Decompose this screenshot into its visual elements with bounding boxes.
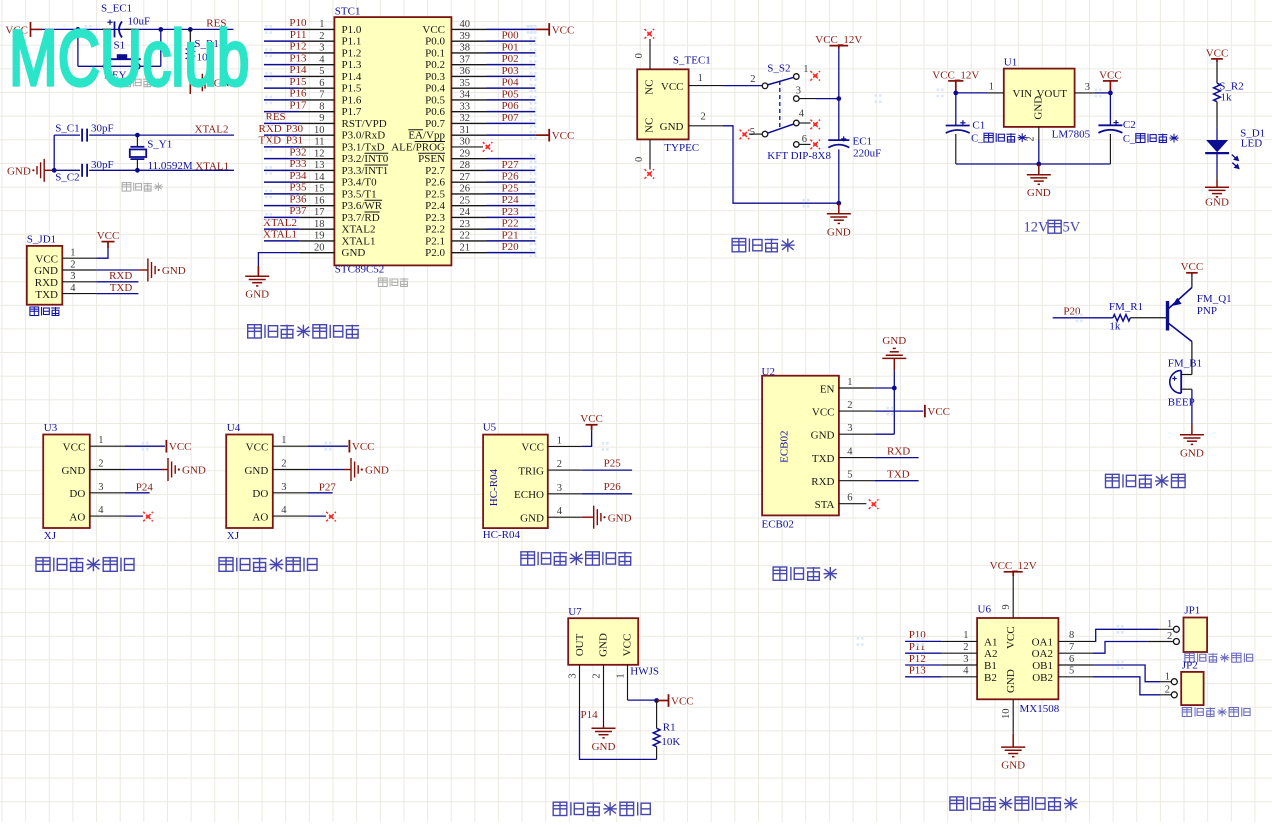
- pin 3: [90, 492, 125, 494]
- pin6 STA cross: [869, 499, 879, 509]
- svg-text:VCC: VCC: [1005, 626, 1017, 649]
- svg-text:P0.3: P0.3: [425, 71, 445, 83]
- svg-text:P2.2: P2.2: [425, 224, 445, 236]
- title bluetooth: [773, 567, 837, 580]
- svg-text:FM_B1: FM_B1: [1168, 358, 1202, 370]
- svg-text:TXD: TXD: [35, 289, 58, 301]
- svg-text:VCC: VCC: [352, 441, 375, 453]
- svg-text:GND: GND: [365, 465, 389, 477]
- svg-text:2: 2: [70, 259, 75, 270]
- svg-text:P2.3: P2.3: [425, 212, 445, 224]
- svg-text:TXD: TXD: [812, 453, 835, 465]
- svg-text:BEEP: BEEP: [1168, 396, 1195, 408]
- svg-text:17: 17: [314, 207, 325, 218]
- svg-text:HWJS: HWJS: [630, 666, 659, 678]
- power port VCC (U1 out): [1103, 81, 1118, 93]
- svg-text:GND: GND: [245, 289, 269, 301]
- wire pin3 DO: [125, 492, 150, 494]
- svg-text:2: 2: [557, 459, 562, 470]
- svg-text:28: 28: [460, 160, 471, 171]
- wire 12V rail: [838, 49, 840, 141]
- pin 30 stub with no-ERC cross: [451, 146, 483, 148]
- svg-text:P23: P23: [502, 206, 520, 218]
- pin 3: [1075, 92, 1095, 94]
- svg-text:P10: P10: [289, 17, 307, 29]
- pin 4: [273, 515, 308, 517]
- svg-text:S_Y1: S_Y1: [147, 138, 172, 150]
- svg-text:VCC: VCC: [97, 230, 120, 242]
- IC pins left: [300, 29, 335, 252]
- svg-text:VCC: VCC: [661, 81, 684, 93]
- svg-text:29: 29: [460, 148, 471, 159]
- svg-text:4: 4: [847, 447, 853, 458]
- svg-text:RES: RES: [266, 111, 286, 123]
- svg-text:P3.4/T0: P3.4/T0: [342, 177, 378, 189]
- junction: [892, 386, 897, 391]
- wire pin5 RXD: [874, 480, 918, 482]
- svg-text:GND: GND: [608, 512, 632, 524]
- svg-text:220uF: 220uF: [853, 148, 881, 160]
- svg-text:1: 1: [319, 19, 324, 30]
- svg-text:38: 38: [460, 43, 471, 54]
- label motor socket 1: [1185, 653, 1253, 662]
- svg-text:P14: P14: [289, 64, 307, 76]
- svg-text:16: 16: [314, 195, 325, 206]
- svg-text:GND: GND: [342, 247, 366, 259]
- svg-text:P14: P14: [581, 709, 599, 721]
- svg-text:EC1: EC1: [853, 136, 873, 148]
- svg-text:P1.2: P1.2: [342, 47, 362, 59]
- svg-text:P3.1/TxD: P3.1/TxD: [342, 141, 385, 153]
- svg-text:VCC: VCC: [521, 442, 544, 454]
- svg-text:XTAL1: XTAL1: [342, 235, 376, 247]
- svg-text:13: 13: [314, 160, 325, 171]
- svg-text:P01: P01: [502, 41, 519, 53]
- svg-text:GND: GND: [34, 265, 58, 277]
- svg-text:FM_Q1: FM_Q1: [1197, 293, 1232, 305]
- svg-text:3: 3: [1085, 82, 1090, 93]
- svg-text:P0.0: P0.0: [425, 36, 445, 48]
- svg-text:RXD: RXD: [259, 123, 282, 135]
- svg-text:XTAL2: XTAL2: [195, 123, 229, 135]
- svg-text:2: 2: [319, 31, 324, 42]
- wire pin1 VCC: [125, 445, 165, 447]
- svg-text:VCC: VCC: [422, 24, 445, 36]
- svg-text:P1.4: P1.4: [342, 71, 362, 83]
- svg-text:P0.7: P0.7: [425, 118, 445, 130]
- pin 0 bottom: [649, 139, 651, 169]
- pin 5 right: [1058, 676, 1093, 678]
- svg-text:2: 2: [591, 673, 602, 678]
- svg-text:P3.5/T1: P3.5/T1: [342, 188, 377, 200]
- svg-text:P26: P26: [502, 171, 520, 183]
- svg-text:P36: P36: [289, 193, 307, 205]
- wire pin2 P25: [582, 469, 632, 471]
- ground GND: [161, 458, 175, 481]
- svg-text:18: 18: [314, 219, 325, 230]
- svg-text:TYPEC: TYPEC: [664, 142, 699, 154]
- svg-text:0: 0: [634, 157, 645, 162]
- svg-text:VCC_12V: VCC_12V: [815, 34, 862, 46]
- svg-text:2: 2: [750, 74, 755, 85]
- svg-text:P2.1: P2.1: [425, 235, 445, 247]
- svg-text:ECB02: ECB02: [762, 519, 794, 531]
- wire pin1 to VCC: [582, 430, 592, 446]
- svg-text:1: 1: [98, 435, 103, 446]
- svg-text:1: 1: [281, 435, 286, 446]
- svg-text:1: 1: [847, 377, 852, 388]
- wire P13: [905, 676, 941, 678]
- IC pin numbers right: [460, 19, 471, 253]
- IC pins right: [451, 29, 486, 252]
- power port VCC (pin31): [535, 134, 549, 136]
- svg-text:27: 27: [460, 172, 471, 183]
- ground GND (U1): [1027, 164, 1051, 184]
- wire row3 to rail: [799, 98, 816, 100]
- svg-text:DO: DO: [252, 488, 268, 500]
- wire xtal1 rail: [54, 169, 80, 171]
- wire pin4 AO stub: [308, 515, 326, 517]
- svg-text:NC: NC: [644, 118, 656, 133]
- svg-text:B1: B1: [984, 660, 997, 672]
- pin 1: [839, 387, 874, 389]
- svg-text:GND: GND: [1033, 96, 1045, 120]
- svg-text:GND: GND: [182, 465, 206, 477]
- svg-text:P17: P17: [289, 99, 307, 111]
- wire GND return: [723, 126, 839, 203]
- svg-text:VCC: VCC: [580, 413, 603, 425]
- wire to switch: [723, 85, 762, 87]
- pin 2: [62, 269, 96, 271]
- wire pin4 TXD: [96, 293, 138, 295]
- svg-text:U4: U4: [227, 422, 241, 434]
- svg-text:NC: NC: [644, 80, 656, 95]
- pin 5: [839, 480, 874, 482]
- wire VCC stub: [31, 28, 43, 30]
- svg-text:XTAL1: XTAL1: [263, 229, 297, 241]
- switch lever bottom: [768, 124, 794, 133]
- power port VCC_12V (U1): [948, 81, 963, 93]
- svg-text:P0.2: P0.2: [425, 59, 445, 71]
- wire xtal2 rail: [54, 134, 80, 136]
- ground GND (crystal): [37, 159, 54, 182]
- wire OA2 to JP1 pin2: [1093, 642, 1148, 654]
- svg-text:1: 1: [803, 64, 808, 75]
- pin 1: [90, 445, 125, 447]
- power port VCC (U2): [924, 405, 926, 418]
- junction: [1036, 162, 1041, 167]
- wire row4 stub: [799, 122, 810, 124]
- svg-text:P26: P26: [604, 481, 622, 493]
- pin 2: [839, 410, 874, 412]
- wire pin4 TXD: [874, 457, 918, 459]
- svg-text:4: 4: [963, 666, 969, 677]
- svg-text:VIN: VIN: [1013, 88, 1033, 100]
- svg-text:5: 5: [750, 127, 755, 138]
- ground GND (U5): [582, 506, 601, 529]
- pin 4: [62, 293, 96, 295]
- wire pin1 to junction: [628, 699, 657, 701]
- pin 9 wire: [1012, 576, 1014, 618]
- svg-text:30pF: 30pF: [91, 159, 114, 171]
- svg-text:P3.6/WR: P3.6/WR: [342, 200, 383, 212]
- svg-text:U3: U3: [44, 422, 58, 434]
- svg-text:P1.1: P1.1: [342, 36, 362, 48]
- wire P11: [905, 652, 941, 654]
- svg-text:1: 1: [989, 82, 994, 93]
- pin 2: [90, 469, 125, 471]
- svg-text:S_C1: S_C1: [55, 122, 79, 134]
- svg-text:1: 1: [70, 248, 75, 259]
- svg-text:P11: P11: [290, 29, 307, 41]
- pin 4: [90, 515, 125, 517]
- svg-text:3: 3: [281, 482, 286, 493]
- wire reset top rail: [42, 28, 234, 30]
- svg-text:8: 8: [319, 101, 324, 112]
- wire C1 down: [955, 134, 957, 164]
- svg-text:22: 22: [460, 231, 471, 242]
- svg-text:6: 6: [319, 78, 324, 89]
- svg-text:P13: P13: [289, 52, 307, 64]
- svg-text:37: 37: [460, 54, 471, 65]
- svg-text:XTAL2: XTAL2: [342, 224, 376, 236]
- annotation download port: [30, 307, 60, 316]
- svg-text:ALE/PROG: ALE/PROG: [391, 141, 445, 153]
- svg-text:HC-R04: HC-R04: [483, 529, 521, 541]
- svg-text:19: 19: [314, 231, 325, 242]
- ground GND (U6): [1001, 734, 1025, 757]
- power port VCC: [348, 440, 350, 453]
- svg-text:10: 10: [314, 125, 325, 136]
- svg-text:P21: P21: [502, 229, 519, 241]
- svg-text:STA: STA: [815, 499, 835, 511]
- svg-text:4: 4: [557, 506, 563, 517]
- wire pin4 AO stub: [125, 515, 143, 517]
- wire row6 stub: [799, 143, 810, 145]
- svg-text:P12: P12: [289, 41, 306, 53]
- svg-text:3: 3: [847, 423, 852, 434]
- title buzzer: [1106, 474, 1186, 487]
- power port VCC_12V (U6): [1004, 572, 1023, 576]
- svg-text:OA2: OA2: [1032, 648, 1053, 660]
- svg-text:P16: P16: [289, 88, 307, 100]
- svg-text:GND: GND: [1001, 760, 1025, 772]
- svg-text:1: 1: [963, 630, 968, 641]
- svg-text:11: 11: [314, 137, 324, 148]
- svg-text:15: 15: [314, 184, 325, 195]
- capacitor C2: [1109, 93, 1111, 126]
- svg-text:40: 40: [460, 19, 471, 30]
- svg-text:TRIG: TRIG: [518, 465, 544, 477]
- svg-text:GND: GND: [1005, 669, 1017, 693]
- svg-text:RXD: RXD: [811, 476, 834, 488]
- svg-text:C_: C_: [971, 134, 984, 145]
- power port VCC (U7): [657, 700, 669, 702]
- title minimal system: [248, 325, 359, 338]
- pin 3 line: [579, 665, 581, 711]
- svg-text:XJ: XJ: [227, 530, 240, 542]
- svg-text:GND: GND: [827, 226, 851, 238]
- svg-text:P2.0: P2.0: [425, 247, 445, 259]
- wire pin2 VCC: [874, 410, 923, 412]
- svg-text:GND: GND: [7, 166, 31, 178]
- svg-text:OA1: OA1: [1032, 636, 1053, 648]
- pin 2 line: [603, 665, 605, 726]
- wire pin3 GND: [874, 433, 894, 435]
- svg-text:P27: P27: [319, 482, 337, 494]
- pin 1: [273, 445, 308, 447]
- title IR receiver: [553, 802, 650, 815]
- capacitor EC1: [828, 140, 849, 148]
- junction: [76, 27, 81, 32]
- svg-text:C1: C1: [972, 120, 985, 132]
- svg-text:2: 2: [1167, 631, 1172, 642]
- svg-text:1k: 1k: [1221, 92, 1233, 104]
- capacitor S_C1: [82, 129, 87, 142]
- crystal S_Y1: [136, 135, 138, 147]
- pin 2: [548, 469, 582, 471]
- ground GND (LED): [1205, 180, 1229, 197]
- svg-text:PNP: PNP: [1197, 305, 1217, 317]
- svg-text:A2: A2: [984, 648, 997, 660]
- net labels left: [259, 17, 307, 241]
- svg-text:S_JD1: S_JD1: [27, 234, 56, 246]
- svg-text:RXD: RXD: [887, 445, 910, 457]
- svg-text:P00: P00: [502, 30, 520, 42]
- svg-text:10K: 10K: [661, 736, 680, 748]
- svg-text:LM7805: LM7805: [1052, 128, 1091, 140]
- svg-text:3: 3: [963, 654, 968, 665]
- svg-text:31: 31: [460, 125, 471, 136]
- svg-text:6: 6: [847, 493, 852, 504]
- wire P20: [1053, 317, 1113, 319]
- pin 2 GND: [689, 125, 723, 127]
- svg-text:3: 3: [796, 86, 801, 97]
- wire emitter to VCC: [1191, 275, 1193, 288]
- wire pin3: [1095, 92, 1110, 94]
- svg-text:U1: U1: [1004, 56, 1017, 68]
- svg-text:TXD: TXD: [887, 468, 910, 480]
- svg-text:3: 3: [70, 271, 75, 282]
- svg-text:P2.7: P2.7: [425, 165, 445, 177]
- svg-text:P34: P34: [289, 170, 307, 182]
- svg-text:VCC: VCC: [812, 406, 835, 418]
- wire to base: [1130, 317, 1166, 319]
- svg-text:GND: GND: [882, 335, 906, 347]
- svg-text:P0.1: P0.1: [425, 47, 445, 59]
- svg-text:P1.6: P1.6: [342, 94, 362, 106]
- svg-text:P2.4: P2.4: [425, 200, 445, 212]
- svg-text:P24: P24: [502, 194, 520, 206]
- svg-text:30pF: 30pF: [91, 122, 114, 134]
- pin 3: [62, 281, 96, 283]
- wire crystal left leg: [53, 135, 55, 170]
- svg-text:4: 4: [70, 283, 76, 294]
- svg-text:P22: P22: [502, 218, 519, 230]
- svg-text:P15: P15: [289, 76, 307, 88]
- annotation reset: [122, 78, 163, 87]
- wire pin3 RXD: [96, 281, 138, 283]
- capacitor S_EC1: [102, 28, 112, 30]
- junction: [654, 698, 659, 703]
- svg-text:VCC_12V: VCC_12V: [932, 69, 979, 81]
- wire P12: [905, 664, 941, 666]
- IC U STC1 body: [334, 17, 451, 265]
- wire VCC to resistor: [1216, 62, 1218, 83]
- net labels right P0x: [502, 30, 520, 254]
- power port VCC (LED): [1211, 59, 1223, 62]
- wire R1 bottom loop to pin3: [656, 747, 658, 760]
- pin 2 left: [941, 652, 977, 654]
- svg-text:25: 25: [460, 195, 471, 206]
- svg-text:4: 4: [281, 505, 287, 516]
- resistor S_R1: [189, 29, 191, 45]
- pin 1 VCC: [689, 85, 723, 87]
- svg-text:35: 35: [460, 78, 471, 89]
- svg-text:P3.0/RxD: P3.0/RxD: [342, 130, 386, 142]
- svg-text:VCC: VCC: [552, 24, 575, 36]
- svg-text:MCUclub: MCUclub: [9, 13, 249, 102]
- IC pin names left: [342, 24, 389, 259]
- svg-text:1: 1: [557, 435, 562, 446]
- svg-text:P13: P13: [909, 665, 927, 677]
- svg-text:P25: P25: [604, 458, 622, 470]
- pin 1: [62, 257, 96, 259]
- svg-text:2: 2: [963, 642, 968, 653]
- wire resistor to LED: [1216, 102, 1218, 127]
- pin 3: [273, 492, 308, 494]
- svg-text:P37: P37: [289, 205, 307, 217]
- svg-text:6: 6: [1069, 654, 1074, 665]
- junction: [836, 96, 841, 101]
- svg-text:24: 24: [460, 207, 471, 218]
- svg-text:P3.3/INT1: P3.3/INT1: [342, 165, 389, 177]
- svg-text:KFT DIP-8X8: KFT DIP-8X8: [767, 150, 831, 162]
- svg-text:XJ: XJ: [44, 530, 57, 542]
- wire OB2 to JP2 pin2: [1093, 677, 1160, 695]
- svg-text:VCC: VCC: [63, 442, 86, 454]
- svg-text:P0.4: P0.4: [425, 83, 445, 95]
- svg-text:1: 1: [698, 73, 703, 84]
- LED S_D1: [1206, 140, 1228, 152]
- wire pin1 VCC: [308, 445, 348, 447]
- svg-text:XTAL2: XTAL2: [263, 217, 297, 229]
- svg-text:VCC_12V: VCC_12V: [990, 560, 1037, 572]
- svg-text:EA/Vpp: EA/Vpp: [408, 130, 445, 142]
- annotation MCU: [378, 278, 408, 287]
- switch link dashed: [779, 81, 781, 129]
- wire pin1 to VCC: [96, 248, 108, 258]
- svg-text:P27: P27: [502, 159, 520, 171]
- pin 0 top: [649, 39, 651, 69]
- svg-text:P31: P31: [286, 135, 303, 147]
- svg-text:2: 2: [1165, 685, 1170, 696]
- pin 1: [988, 92, 1004, 94]
- svg-text:OUT: OUT: [574, 633, 586, 656]
- svg-text:LED: LED: [1241, 138, 1262, 150]
- svg-text:EN: EN: [820, 383, 835, 395]
- svg-text:U5: U5: [483, 422, 497, 434]
- svg-text:4: 4: [799, 109, 805, 120]
- power port VCC (pin40): [535, 28, 549, 30]
- svg-text:HC-R04: HC-R04: [488, 468, 500, 506]
- selection grips: [530, 25, 537, 34]
- svg-text:P05: P05: [502, 88, 520, 100]
- svg-text:AO: AO: [69, 512, 85, 524]
- svg-text:26: 26: [460, 184, 471, 195]
- svg-text:4: 4: [319, 54, 325, 65]
- svg-text:P02: P02: [502, 53, 519, 65]
